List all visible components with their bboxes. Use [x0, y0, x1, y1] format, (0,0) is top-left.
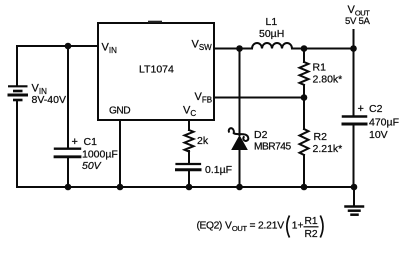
wire R1 bottom stub	[303, 85, 305, 98]
capacitor C1 plates	[55, 149, 80, 157]
resistor R2	[300, 129, 309, 155]
battery V_IN plates	[8, 86, 29, 100]
inductor L1	[252, 43, 292, 49]
node: rail 0.1uF	[186, 184, 193, 191]
node: rail C1	[65, 184, 72, 191]
equation fraction bar	[304, 226, 319, 228]
svg-text:10V: 10V	[369, 129, 388, 141]
wire V_C pin upper	[188, 120, 190, 130]
wire 2k to 0.1uF	[188, 151, 190, 163]
node: feedback junction R1/R2	[301, 94, 308, 101]
svg-text:5V 5A: 5V 5A	[345, 16, 371, 27]
wire diode branch bottom	[239, 149, 241, 187]
wire C2 to rail	[353, 125, 355, 187]
wire ground rail	[17, 186, 354, 188]
svg-text:8V-40V: 8V-40V	[32, 94, 66, 106]
node: rail R2	[301, 184, 308, 191]
equation big right paren	[320, 216, 323, 238]
ground symbol	[346, 187, 364, 215]
svg-text:2k: 2k	[197, 135, 209, 147]
op-amp U1 LT1074 box	[98, 23, 214, 120]
node: V_OUT junction	[350, 45, 357, 52]
svg-text:C1: C1	[84, 136, 98, 148]
capacitor 0.1uF	[177, 164, 201, 170]
wire C1 branch lower	[67, 157, 69, 187]
svg-text:L1: L1	[266, 16, 278, 28]
svg-text:C2: C2	[369, 103, 383, 115]
resistor R1	[300, 62, 309, 85]
node: rail GND pin	[117, 184, 124, 191]
svg-text:50V: 50V	[82, 160, 102, 172]
wire R2 bottom stub	[303, 155, 305, 187]
resistor 2k	[185, 130, 194, 152]
diode D2 triangle	[232, 136, 247, 150]
svg-text:LT1074: LT1074	[139, 64, 174, 76]
svg-text:R2: R2	[305, 229, 318, 240]
svg-text:2.80k*: 2.80k*	[313, 74, 343, 86]
svg-text:= 2.21V: = 2.21V	[250, 221, 285, 232]
wire R2 top stub	[303, 98, 305, 130]
svg-text:R1: R1	[313, 62, 327, 74]
svg-text:+: +	[72, 136, 78, 148]
svg-text:R2: R2	[314, 131, 328, 143]
svg-text:2.21k*: 2.21k*	[313, 143, 343, 155]
wire R1 top stub	[303, 49, 305, 63]
svg-text:D2: D2	[254, 129, 268, 141]
svg-text:1000µF: 1000µF	[82, 149, 118, 161]
svg-text:R1: R1	[305, 216, 318, 227]
node: rail ground symbol	[351, 184, 358, 191]
diode D2 schottky cathode bar	[229, 128, 249, 141]
svg-text:MBR745: MBR745	[254, 142, 291, 153]
wire V_OUT to C2	[353, 49, 355, 117]
svg-text:(EQ2): (EQ2)	[197, 221, 222, 232]
equation big left paren	[287, 216, 290, 238]
wire V_OUT top	[353, 30, 355, 49]
wire C1 branch upper	[67, 46, 69, 148]
wire battery bottom	[16, 100, 18, 187]
svg-text:50µH: 50µH	[259, 28, 284, 40]
wire V_FB line	[214, 97, 304, 99]
node: C1 top junction	[65, 43, 72, 50]
wire V_SW line right	[292, 48, 354, 50]
wire GND pin	[119, 120, 121, 187]
svg-text:+: +	[358, 103, 364, 115]
node: diode top junction	[236, 45, 243, 52]
svg-text:470µF: 470µF	[369, 117, 399, 129]
wire V_SW line left	[214, 48, 252, 50]
wire V_IN input top	[17, 46, 98, 86]
node: rail diode	[236, 184, 243, 191]
svg-text:0.1µF: 0.1µF	[205, 164, 232, 176]
capacitor C2	[343, 117, 366, 125]
svg-text:GND: GND	[109, 106, 130, 117]
wire 0.1uF to rail	[188, 171, 190, 187]
svg-text:1+: 1+	[292, 221, 304, 232]
equation EQ2	[197, 216, 318, 240]
wire diode branch top	[239, 49, 241, 136]
node: R1 top junction	[301, 45, 308, 52]
smudge mark above IC box	[148, 21, 162, 23]
